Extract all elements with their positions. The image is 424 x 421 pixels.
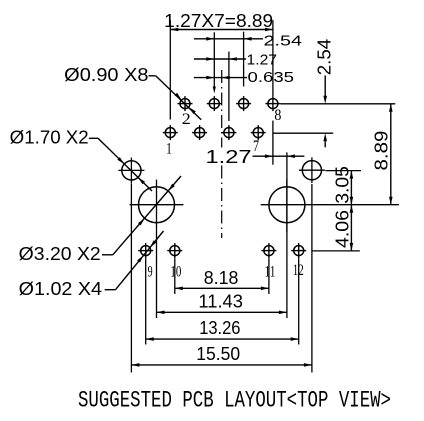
- pad 6 (top row, Ø0.90): [236, 96, 251, 111]
- dimension 1.27 (pad 8 to hole center): [206, 121, 305, 167]
- dimension 11.43: [157, 291, 287, 314]
- svg-text:2.54: 2.54: [314, 39, 334, 76]
- svg-text:Ø1.02 X4: Ø1.02 X4: [19, 279, 102, 299]
- svg-text:11: 11: [265, 264, 276, 281]
- svg-text:1.27X7=8.89: 1.27X7=8.89: [164, 10, 273, 31]
- svg-text:9: 9: [148, 264, 153, 281]
- dimension 8.89 vertical: [371, 104, 392, 205]
- leader Ø0.90 X8 (pin holes): [64, 65, 201, 120]
- pad 8 (top row, Ø0.90): [265, 96, 280, 111]
- svg-text:13.26: 13.26: [199, 318, 240, 338]
- dimension 13.26: [146, 318, 299, 341]
- svg-text:2: 2: [182, 111, 191, 128]
- mounting hole Ø1.70 left: [118, 158, 144, 184]
- leader Ø3.20 X2 (big mounting holes): [19, 176, 181, 264]
- extension line right Ø3.20 center: [286, 152, 288, 318]
- centerline (dash-dot): [221, 70, 223, 148]
- leader Ø1.70 X2 (small mounting holes): [10, 128, 152, 191]
- extension line left Ø1.70 hole: [130, 183, 132, 372]
- dimension 1.27X7=8.89 (overall pin span): [164, 10, 273, 120]
- mounting hole Ø3.20 left: [130, 180, 184, 230]
- pad 5 (second row, Ø0.90): [221, 125, 236, 140]
- svg-text:0.635: 0.635: [248, 70, 295, 86]
- dimension 2.54 (pad pitch top): [194, 32, 302, 94]
- dimension 1.27 (stagger offset): [194, 52, 277, 121]
- extension line pad-8 row: [281, 103, 396, 105]
- mounting hole Ø1.70 right: [299, 157, 325, 183]
- pad 12 (bottom row, Ø1.02): [291, 243, 306, 258]
- svg-text:8.89: 8.89: [371, 131, 391, 171]
- svg-text:10: 10: [170, 264, 181, 281]
- pad 2 (top row, Ø0.90): [178, 96, 193, 111]
- pad 1 (second row, Ø0.90): [163, 125, 178, 140]
- pad 4 (top row, Ø0.90): [207, 96, 222, 111]
- extension line pad-7 row: [273, 132, 333, 134]
- pad 9 (bottom row, Ø1.02): [138, 243, 153, 258]
- svg-text:SUGGESTED PCB LAYOUT<TOP VIEW>: SUGGESTED PCB LAYOUT<TOP VIEW>: [78, 388, 391, 415]
- svg-text:15.50: 15.50: [196, 344, 240, 364]
- extension line pad 11: [268, 258, 270, 294]
- svg-text:1.27: 1.27: [247, 53, 278, 69]
- dimension 0.635 (to centerline): [194, 70, 294, 86]
- extension line right hole center: [325, 170, 361, 172]
- svg-text:Ø3.20 X2: Ø3.20 X2: [19, 244, 101, 264]
- dimension 4.06 vertical: [332, 205, 353, 251]
- svg-text:Ø0.90 X8: Ø0.90 X8: [64, 65, 148, 85]
- extension line pad-12 row: [312, 250, 360, 252]
- dimension 3.05 vertical: [332, 166, 353, 205]
- extension line left Ø3.20 center: [156, 230, 158, 318]
- dimension 15.50: [131, 344, 312, 367]
- svg-text:8.18: 8.18: [204, 268, 239, 288]
- svg-text:4.06: 4.06: [332, 210, 352, 248]
- mounting hole Ø3.20 right: [261, 179, 399, 232]
- svg-text:12: 12: [293, 262, 304, 279]
- dimension 2.54 vertical (row spacing): [314, 39, 334, 148]
- extension line pad 9: [145, 258, 147, 344]
- pad 10 (bottom row, Ø1.02): [167, 243, 182, 258]
- svg-text:2.54: 2.54: [264, 33, 303, 49]
- dimension 8.18: [175, 268, 269, 290]
- extension line pad 10: [174, 258, 176, 294]
- pad 7 (second row, Ø0.90): [251, 125, 266, 140]
- extension line right Ø1.70 hole: [311, 184, 313, 373]
- svg-text:11.43: 11.43: [198, 291, 243, 311]
- pad 11 (bottom row, Ø1.02): [261, 243, 276, 258]
- extension line pad 12: [298, 258, 300, 344]
- svg-text:1.27: 1.27: [206, 147, 252, 167]
- svg-text:7: 7: [253, 138, 259, 155]
- svg-text:Ø1.70 X2: Ø1.70 X2: [10, 128, 89, 148]
- svg-text:1: 1: [166, 141, 172, 158]
- leader Ø1.02 X4 (bottom pads): [19, 231, 164, 299]
- svg-text:8: 8: [274, 107, 281, 124]
- svg-text:3.05: 3.05: [332, 166, 352, 204]
- pad 3 (second row, Ø0.90): [192, 125, 207, 140]
